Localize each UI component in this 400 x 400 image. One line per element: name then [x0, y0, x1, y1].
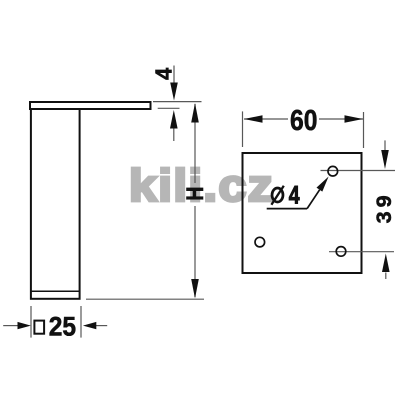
svg-text:kili.cz: kili.cz	[129, 160, 274, 211]
svg-text:60: 60	[290, 104, 317, 136]
svg-text:4: 4	[289, 181, 300, 209]
svg-text:H: H	[181, 186, 208, 200]
svg-text:4: 4	[151, 67, 177, 80]
svg-text:25: 25	[49, 313, 76, 342]
